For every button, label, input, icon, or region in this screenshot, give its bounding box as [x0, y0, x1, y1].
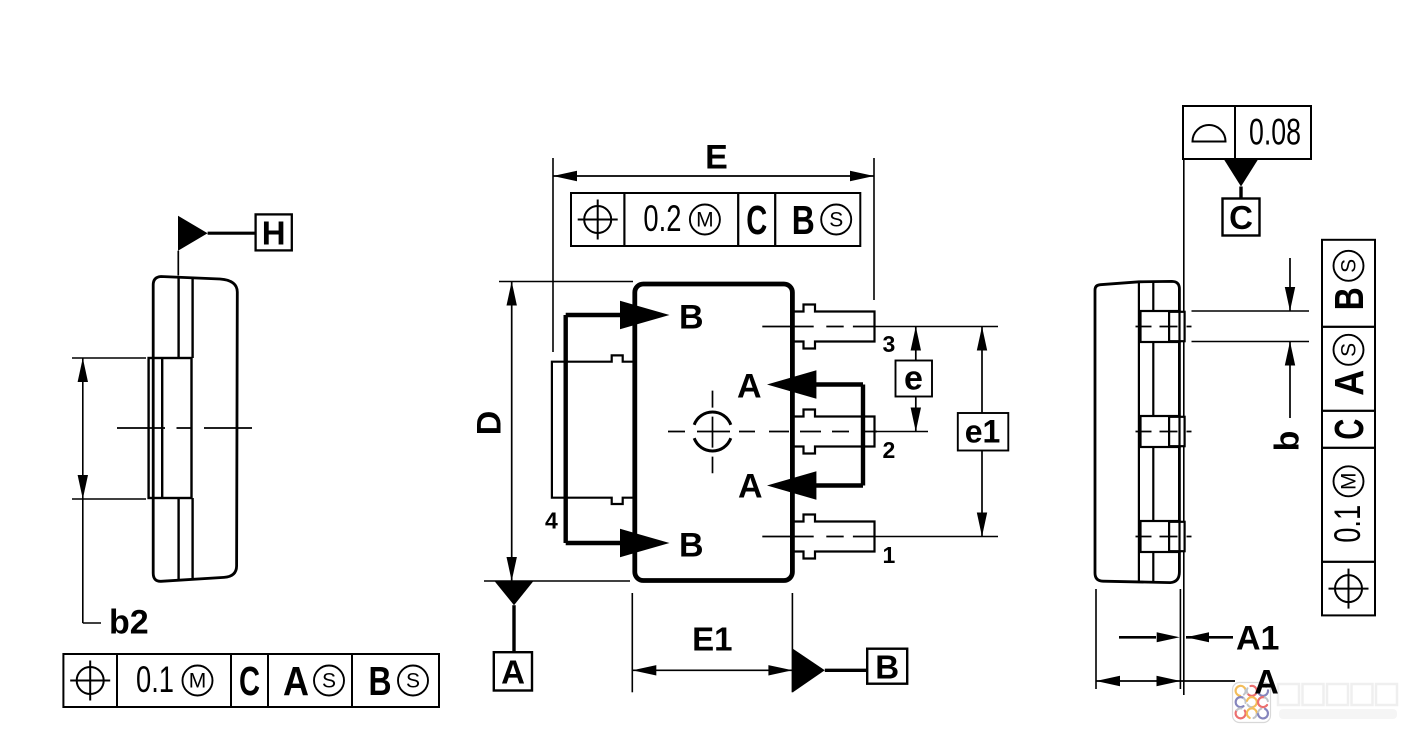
svg-text:b2: b2 — [109, 604, 149, 642]
feature control frame: position 0.1 (M) | C | A(S) | B(S) — [63, 654, 117, 707]
svg-text:S: S — [1338, 343, 1361, 357]
dimension e line and arrows — [915, 327, 917, 432]
svg-text:S: S — [829, 209, 843, 232]
svg-text:A: A — [1326, 370, 1372, 396]
right side view body outline — [1095, 281, 1179, 582]
svg-text:2: 2 — [883, 437, 896, 463]
svg-text:S: S — [322, 670, 336, 693]
dimension b2 extension lines — [72, 357, 146, 359]
svg-text:0.08: 0.08 — [1249, 112, 1301, 153]
svg-text:e: e — [904, 360, 923, 398]
dimension E1 line and arrows — [632, 669, 792, 671]
svg-text:B: B — [679, 527, 704, 565]
datum A target arrow (top) — [767, 370, 816, 398]
datum C feature triangle — [1224, 160, 1258, 187]
flatness feature control frame box — [1183, 106, 1235, 159]
dimension E extension lines — [552, 158, 554, 352]
svg-text:C: C — [239, 658, 260, 704]
pin 3 lead outline and centerline — [791, 305, 875, 349]
datum label B box — [867, 649, 907, 684]
svg-text:A: A — [1254, 664, 1279, 702]
datum flag H leader lines — [208, 232, 256, 235]
seating plane extension line (datum C) — [1183, 159, 1185, 695]
svg-text:E: E — [705, 139, 728, 177]
feature control frame: position 0.2 (M) | C | B(S) — [571, 193, 624, 246]
pin 2 centerline extension — [875, 431, 929, 433]
svg-text:A1: A1 — [1236, 620, 1279, 658]
svg-text:M: M — [189, 670, 207, 693]
datum A stem — [512, 605, 515, 652]
pin 1 lead outline and centerline — [791, 515, 875, 559]
datum B bracket on tab — [564, 315, 568, 543]
dimension e1 line and arrows — [981, 327, 983, 537]
front view tab (pin 4) outline — [552, 355, 633, 504]
svg-text:b: b — [1269, 431, 1307, 452]
svg-text:0.1: 0.1 — [1327, 505, 1368, 543]
right view lead of pin 2 — [1141, 416, 1185, 447]
datum A feature triangle on bottom extension line — [495, 582, 533, 606]
center mark circle — [694, 412, 731, 425]
svg-text:0.1: 0.1 — [136, 659, 174, 700]
svg-text:S: S — [406, 670, 420, 693]
datum C stem — [1239, 187, 1242, 199]
datum B leader line — [825, 669, 867, 672]
svg-text:C: C — [1326, 419, 1372, 440]
center mark vertical centerline — [712, 391, 714, 474]
datum A bracket on pin 2 — [861, 385, 865, 486]
watermark logo arcs — [1236, 686, 1246, 696]
dimension D line and arrows — [511, 282, 513, 582]
dimension A1 extension line (body edge) — [1179, 589, 1181, 689]
svg-text:H: H — [262, 215, 286, 252]
rotated feature control frame: position 0.1 (M) | C | A(S) | B(S) — [1322, 240, 1375, 616]
svg-text:E1: E1 — [692, 621, 732, 658]
right side view lead frame vertical edges — [1138, 282, 1140, 582]
front view body outline — [635, 284, 793, 581]
svg-text:C: C — [746, 197, 767, 243]
svg-text:B: B — [679, 299, 704, 337]
pin 3 centerline extension — [875, 326, 999, 328]
datum B target arrow (top) — [620, 301, 670, 329]
svg-text:0.2: 0.2 — [643, 198, 681, 239]
right view lead of pin 3 — [1141, 311, 1185, 342]
datum B target arrow (bottom) — [620, 529, 670, 557]
svg-text:A: A — [501, 654, 525, 691]
svg-text:4: 4 — [545, 508, 558, 534]
dimension b arrows — [1289, 258, 1291, 311]
svg-text:D: D — [471, 411, 509, 436]
dimension A extension line (left) — [1095, 589, 1097, 689]
dimension E line and arrows — [553, 175, 874, 177]
side view horizontal centerline — [117, 427, 254, 429]
dimension b extension lines — [1192, 310, 1310, 312]
dimension D extension lines — [499, 281, 633, 283]
dimension b2 line and arrows — [82, 358, 84, 623]
svg-text:M: M — [696, 209, 714, 232]
datum flag H triangle — [178, 216, 208, 251]
svg-text:C: C — [1229, 199, 1253, 236]
dimension E1 extension lines — [631, 593, 633, 692]
flatness symbol — [1193, 125, 1226, 141]
datum A target arrow (bottom) — [767, 471, 816, 499]
dimension A line and arrows — [1096, 680, 1235, 682]
side view tab (pin 4) outline — [149, 358, 192, 498]
datum label H box — [256, 214, 292, 250]
dimension label e box — [896, 361, 933, 397]
dimension A1 arrows and leaders — [1119, 636, 1156, 639]
datum label C box — [1223, 199, 1260, 236]
datum label A box — [494, 652, 532, 690]
svg-text:B: B — [1326, 287, 1372, 310]
svg-text:3: 3 — [883, 331, 896, 357]
dimension label e1 box — [958, 413, 1009, 451]
side view body outline (left view) — [153, 277, 237, 582]
watermark text blocks — [1278, 684, 1299, 705]
svg-text:M: M — [1338, 473, 1361, 491]
svg-text:B: B — [792, 197, 815, 243]
front view horizontal centerline — [668, 431, 877, 433]
datum B feature triangle on extension line — [793, 649, 825, 693]
svg-text:e1: e1 — [965, 414, 1001, 450]
svg-text:A: A — [738, 468, 763, 506]
side view tab inner edge — [161, 358, 163, 498]
pin 1 centerline extension — [875, 536, 999, 538]
svg-text:S: S — [1338, 259, 1361, 273]
watermark logo box — [1233, 683, 1271, 723]
svg-text:B: B — [875, 649, 899, 686]
pin 2 lead outline and centerline — [791, 410, 875, 454]
svg-text:A: A — [283, 658, 309, 704]
side view lead-frame edge lines — [177, 277, 179, 358]
svg-text:A: A — [737, 368, 762, 406]
right view lead of pin 1 — [1141, 521, 1185, 552]
svg-text:1: 1 — [883, 542, 896, 568]
svg-text:B: B — [369, 658, 392, 704]
